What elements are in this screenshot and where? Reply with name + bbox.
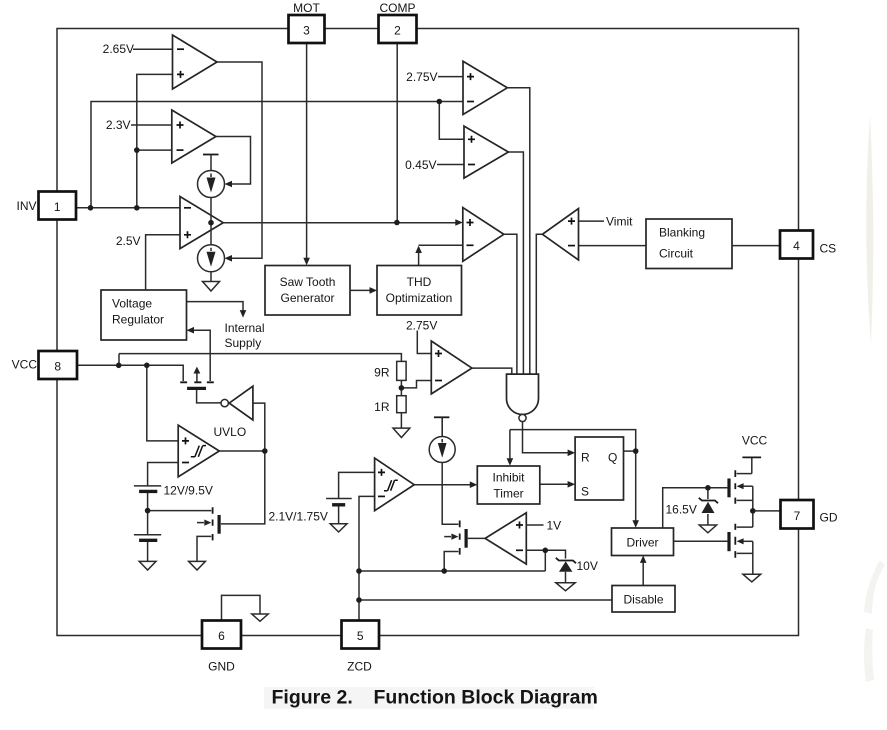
svg-text:VCC: VCC [742, 434, 768, 448]
svg-text:MOT: MOT [293, 1, 320, 15]
svg-text:COMP: COMP [380, 1, 416, 15]
svg-text:Supply: Supply [225, 336, 262, 350]
svg-text:Voltage: Voltage [112, 297, 152, 311]
svg-text:INV: INV [16, 199, 36, 213]
svg-text:2.75V: 2.75V [406, 70, 437, 84]
svg-text:2.1V/1.75V: 2.1V/1.75V [269, 510, 328, 524]
svg-text:S: S [581, 485, 589, 499]
svg-text:1R: 1R [374, 400, 390, 414]
svg-text:16.5V: 16.5V [666, 503, 697, 517]
svg-text:6: 6 [218, 629, 225, 643]
svg-text:1V: 1V [547, 519, 562, 533]
svg-text:Saw Tooth: Saw Tooth [280, 275, 336, 289]
svg-text:R: R [581, 451, 590, 465]
svg-text:UVLO: UVLO [214, 425, 247, 439]
svg-text:2.75V: 2.75V [406, 319, 437, 333]
svg-text:THD: THD [407, 275, 432, 289]
svg-text:Q: Q [608, 451, 617, 465]
svg-text:Optimization: Optimization [386, 291, 453, 305]
svg-text:Function Block Diagram: Function Block Diagram [374, 687, 598, 709]
svg-text:Inhibit: Inhibit [492, 471, 525, 485]
svg-text:4: 4 [793, 239, 800, 253]
svg-text:Regulator: Regulator [112, 313, 164, 327]
svg-text:VCC: VCC [12, 358, 38, 372]
svg-text:2.5V: 2.5V [116, 234, 141, 248]
svg-text:Disable: Disable [623, 593, 663, 607]
svg-text:2.3V: 2.3V [106, 118, 131, 132]
svg-text:Driver: Driver [627, 536, 659, 550]
svg-text:Circuit: Circuit [659, 247, 694, 261]
svg-text:GD: GD [820, 511, 838, 525]
svg-text:7: 7 [794, 509, 801, 523]
svg-text:Vimit: Vimit [606, 215, 633, 229]
svg-text:12V/9.5V: 12V/9.5V [164, 484, 213, 498]
svg-text:8: 8 [54, 360, 61, 374]
svg-text:Generator: Generator [280, 291, 334, 305]
svg-text:Internal: Internal [225, 321, 265, 335]
svg-text:2: 2 [394, 24, 401, 38]
svg-text:10V: 10V [577, 559, 598, 573]
svg-text:0.45V: 0.45V [405, 158, 436, 172]
svg-text:CS: CS [820, 242, 837, 256]
svg-text:Timer: Timer [493, 487, 523, 501]
svg-text:ZCD: ZCD [347, 660, 372, 674]
svg-text:9R: 9R [374, 366, 390, 380]
svg-text:1: 1 [54, 200, 61, 214]
svg-text:2.65V: 2.65V [103, 42, 134, 56]
svg-text:3: 3 [303, 24, 310, 38]
svg-text:Figure 2.: Figure 2. [272, 687, 353, 709]
svg-text:Blanking: Blanking [659, 226, 705, 240]
svg-text:GND: GND [208, 660, 235, 674]
svg-text:5: 5 [357, 629, 364, 643]
